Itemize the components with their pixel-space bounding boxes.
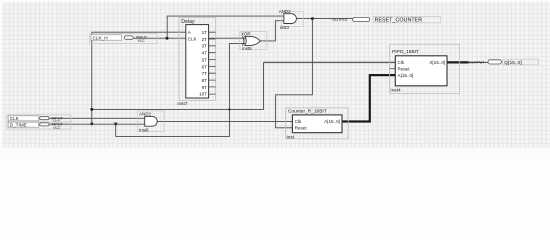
svg-text:VCC: VCC — [138, 39, 146, 43]
xor-gate XOR inst5 — [240, 32, 267, 51]
wire CLK input to and2 inst6 input1 — [50, 117, 145, 119]
block Delay inst7 — [177, 17, 215, 107]
node and2 output junction — [311, 17, 314, 20]
svg-text:2T: 2T — [202, 37, 208, 42]
svg-text:Delay: Delay — [181, 19, 195, 25]
svg-text:inst5: inst5 — [242, 46, 252, 51]
svg-text:6T: 6T — [202, 64, 208, 69]
svg-text:A[15..0]: A[15..0] — [324, 119, 340, 124]
wire reset net down-left-down to Counter Reset — [276, 19, 313, 128]
wire D_TIME branch y109 to riser x263.5 — [92, 62, 264, 109]
bus Counter A[15..0] to PIPO A[15..0] — [342, 75, 395, 121]
svg-text:9T: 9T — [202, 85, 208, 90]
wire D_TIME U-path to xor input2 — [116, 44, 247, 137]
svg-text:4T: 4T — [202, 51, 208, 56]
svg-text:inst: inst — [287, 134, 295, 140]
svg-text:X[15..0]: X[15..0] — [429, 60, 445, 65]
wire Delay 2T to xor input1 — [209, 37, 247, 39]
input port CLK_H — [90, 34, 158, 44]
input port CLK — [7, 115, 71, 124]
pin stub PIPO Reset unconnected — [390, 68, 396, 70]
wire D_TIME input to and2 inst6 input2 — [50, 123, 145, 125]
svg-text:CLK_H: CLK_H — [93, 36, 108, 41]
svg-text:OUTPUT: OUTPUT — [332, 18, 348, 22]
svg-text:inst3: inst3 — [280, 25, 290, 30]
svg-text:3T: 3T — [202, 44, 208, 49]
and-gate AND2 inst6 — [138, 111, 165, 132]
svg-text:Q[15..0]: Q[15..0] — [504, 60, 522, 66]
and-gate AND2 inst3 — [279, 9, 303, 30]
svg-text:1T: 1T — [202, 30, 208, 35]
svg-text:A[15..0]: A[15..0] — [398, 73, 414, 78]
svg-text:8T: 8T — [202, 78, 208, 83]
wire net to PIPO Clk (horizontal bar) — [264, 61, 396, 63]
block Counter_R_16BIT inst — [286, 108, 349, 141]
wire CLK_H branch up to and2 inst3 input1 — [167, 16, 284, 38]
svg-text:AND2: AND2 — [139, 111, 151, 116]
svg-text:Clk: Clk — [295, 119, 302, 124]
svg-text:Reset: Reset — [398, 66, 411, 71]
svg-text:RESET_COUNTER: RESET_COUNTER — [375, 18, 423, 24]
svg-text:5T: 5T — [202, 57, 208, 62]
wire lead into Q output symbol — [469, 61, 488, 63]
node dot2 — [90, 122, 93, 125]
bus PIPO X[15..0] to OUTPUT Q — [447, 61, 469, 63]
svg-text:D_TIME: D_TIME — [10, 123, 27, 128]
output port RESET_COUNTER — [332, 16, 440, 23]
svg-text:inst6: inst6 — [139, 127, 149, 132]
node cross junction D_TIME — [228, 108, 230, 110]
svg-text:CLK: CLK — [188, 37, 198, 42]
node junction CLK_H — [166, 37, 169, 40]
node dot1 — [90, 108, 93, 111]
svg-text:10T: 10T — [199, 92, 207, 97]
svg-text:XOR: XOR — [241, 32, 251, 37]
output port Q[15..0] — [469, 59, 539, 66]
block PIPO_16BIT inst4 — [390, 44, 460, 93]
svg-text:CLK: CLK — [10, 116, 20, 121]
svg-text:PIPO_16BIT: PIPO_16BIT — [392, 49, 419, 55]
svg-text:Counter_R_16BIT: Counter_R_16BIT — [288, 108, 327, 114]
pin stubs 1T-10T — [209, 32, 216, 94]
svg-text:VCC: VCC — [53, 126, 61, 130]
node dot3 — [114, 122, 117, 125]
svg-text:Reset: Reset — [295, 126, 308, 131]
wire and2 inst6 output to Counter Clk — [157, 120, 292, 122]
svg-text:inst7: inst7 — [177, 101, 187, 107]
wire CLK_H to Delay CLK — [133, 37, 186, 39]
svg-text:OUTPUT: OUTPUT — [469, 61, 485, 65]
svg-text:Clk: Clk — [398, 60, 405, 65]
wire D_TIME riser and top run to Delay A — [92, 32, 186, 124]
wire and2 inst3 output to OUTPUT port — [296, 18, 352, 20]
svg-text:7T: 7T — [202, 71, 208, 76]
wire xor output up to and2 inst3 input2 — [260, 21, 284, 41]
input port D_TIME — [7, 122, 71, 130]
svg-text:inst4: inst4 — [391, 88, 401, 94]
